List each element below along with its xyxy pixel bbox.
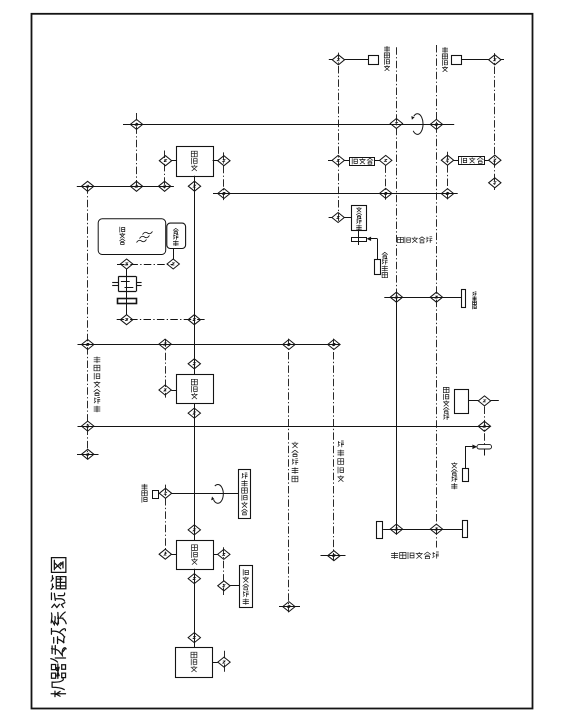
label adjust handle [472,292,476,309]
wire shaft V11 x396 lower solid [396,297,398,535]
gear z below box2 [188,408,200,418]
gearbox U1 box1 [177,147,214,177]
wire arrow feed vertical [377,239,379,260]
gear z y186 x136 [130,181,142,191]
gear z y607 x289 [283,602,295,612]
wire axis y320 [117,319,206,321]
coupling K1 (fluid coupling) [112,276,141,291]
output gear block 2 [452,56,462,65]
wire handle shaft y297 [384,297,461,299]
wire box3 right to d43 [213,554,218,556]
gear z y454 x88 [82,449,94,459]
pulley K2 under coupling [118,299,137,304]
wire switch link vertical [465,447,467,468]
wire shifter down [358,230,360,245]
wire axis y264 motor couple [117,264,173,266]
wire stub through d47 [279,606,300,608]
gear z below box3 [188,574,200,584]
label signal lamp [443,387,449,420]
label box1 text [191,151,198,171]
gear z y186 x88 [81,181,93,191]
gear z below valve2 [489,178,501,188]
gear z y193 x224 [218,189,230,199]
chuck bar left [377,522,383,539]
gear z box3 right [218,549,230,559]
gear z y186 x194 main shaft [188,181,200,191]
gear z box1-right [218,156,230,166]
wire stub right of output gear 2 [501,59,504,61]
wire stub right d34 [491,400,499,402]
gear z y297 x396 [390,292,402,302]
gear z shifter-left [332,213,344,223]
wire shaft line y493 [171,493,238,495]
wire d23 to adjust lever [443,297,461,299]
gearbox U3 box3 [177,541,214,570]
gear z above box2 [188,359,200,369]
wire box4 right to d49 [213,662,218,664]
wire box1 left link [172,160,176,162]
shifter rect [352,206,367,231]
wire square to output gear2 [462,59,489,61]
wire valve rect2 to d11 [485,160,489,162]
gear z y344 x165 [159,339,171,349]
wire chuck gear shaft y529 [383,529,463,531]
wire axis V14 x495 [494,53,496,190]
gear z output-2 diamond [489,55,501,65]
wire axis V7b x224 low [223,547,225,595]
wire stub below handle pill [484,449,486,455]
gear z reducer out [167,259,179,269]
label motor text [119,227,125,245]
wire lamp to d34 [469,400,479,402]
gear z y556 x334 [328,551,340,561]
arrow into fork bar [367,237,372,241]
wire main shaft box2-box3 [194,404,196,541]
valve label rect 2 [459,157,485,165]
valve label rect 1 [350,158,375,166]
gear z rope wheel [159,488,171,498]
wire reducer output stub x173 [173,249,175,260]
wire axis V9 x334 [333,339,335,562]
gear z y297 x436 [430,292,442,302]
wire axis V11 x396 upper [396,47,398,297]
clutch medium rod [375,260,381,275]
gearbox U2 box2 [177,375,214,404]
gear z above box3 [188,525,200,535]
wire axis V15 x484 [484,407,486,445]
rotation arrow R2 on shaft y493 [214,484,224,503]
wire shaft line y426 [78,426,491,428]
wire d46 to labelbox B [230,585,239,587]
output gear block 1 [369,56,379,65]
wire d32 to box2 [171,390,176,392]
gear z chuck left [390,524,402,534]
label output gear 1 [384,46,390,71]
labelbox A positioning pin [239,470,251,519]
gear z chuck right [430,524,442,534]
motor M1 wave symbol [137,232,153,243]
chuck bar right [463,521,468,538]
reducer box attached to motor [167,223,186,248]
gear z above box4 [188,633,200,643]
labelbox B rope insert [240,566,253,608]
wire arrow feed horizontal [371,238,378,240]
wire axis x386 valve1 down [385,165,387,200]
label clutch medium [382,252,388,277]
gearbox U4 box4 [176,648,213,678]
wire shaft line y186 [77,186,174,188]
switch medium rod [463,469,469,482]
label box4 text [191,652,198,672]
wire d20 to shifter rect [344,217,351,219]
gear z y426 x88 [82,421,94,431]
wire d42 to box3 left [172,554,177,556]
wire main shaft box1-box2 [194,176,196,375]
label axis x334 name [338,441,345,482]
label output gear 2 [442,47,448,72]
gear z box2 left [159,385,171,395]
label chuck driven gear [391,552,439,559]
gear z box4 right [218,657,230,667]
label feed change gear train [94,357,101,413]
motor M1 main motor body [98,219,166,255]
arrow into pill [472,445,477,450]
rope block square [153,491,159,499]
wire d08 to valve rect1 [344,160,349,162]
rotation arrow R1 on shaft y124 [413,114,423,135]
wire box1 right link [213,160,218,162]
wire stub through d44 [321,555,346,557]
gear z motor out left [120,259,132,269]
label reducer text [173,228,179,246]
adjust handle lever [462,290,466,308]
gear z box1-left [159,156,171,166]
wire rope square to d38 [158,493,159,495]
gear z at labelbox B [218,581,230,591]
wire axis V10 x338 [338,53,340,224]
gear z main shaft y320 [188,315,200,325]
wire main shaft box3-box4 [194,569,196,648]
wire axis V4c x165 low [165,485,167,555]
gear z y193 x386 [380,188,392,198]
wire axis V8 x289 [288,339,290,613]
label valve2 text [461,157,483,163]
label valve1 text [352,158,373,164]
gear z lamp right [478,396,490,406]
gear z y344 x289 [283,340,295,350]
label axis x289 name [292,442,299,482]
wire axis V13 x447 [447,152,449,200]
wire stub through d37 [77,454,99,456]
wire output gear1 to square [345,59,369,61]
wire shaft line y124 [123,124,454,126]
gear z output-1 diamond [332,55,344,65]
wire shaft line y344 [78,344,341,346]
gear z y344 x334 [328,340,340,350]
gear z y193 x447 [441,189,453,199]
wire axis V7c x224 gearstub [224,651,226,674]
shifter fork bar [352,238,367,242]
handle pill on axis x484 [477,445,492,449]
label positioning pin text [241,473,247,515]
wire motor output shaft x127 [126,269,128,315]
label labelbox B text [243,569,249,604]
wire stub left d20 [329,217,332,219]
wire valve rect1 to d09 [374,160,379,162]
wire stub left of output gear 1 [329,59,333,61]
title: machine transmission system diagram [51,558,66,697]
gear z on y124 at x136 [130,119,142,129]
gear z y186 x165 [158,181,170,191]
label box2 text [191,379,198,399]
wire axis V3 x136 [136,113,138,186]
gear z on y124 at x436 [430,119,442,129]
label wire rope [142,484,148,503]
wire d10 to valve rect2 [454,160,459,162]
wire axis V4b x165 mid [165,339,167,397]
wire axis V1 x88 [87,186,89,459]
gear z valve1-left [332,155,344,165]
gear z y344 x88 [82,340,94,350]
gear z valve2-left [441,155,453,165]
gear z valve1-right [380,155,392,165]
wire switch link horizontal [465,446,472,448]
label shifter text [356,207,362,230]
signal lamp rect [455,390,469,414]
gear z y426 x484 [478,421,490,431]
label box3 text [191,545,198,565]
label switch medium [451,462,457,489]
gear z box3 left [159,549,171,559]
gear z pulley bottom [120,315,132,325]
wire shaft line y193 [213,193,458,195]
gear z valve2-right [489,155,501,165]
label vertical axis name [398,237,433,243]
wire stub left d08 [328,160,332,162]
wire axis V12 x436 [436,45,438,548]
wire axis V4a x165 top [164,151,166,192]
gear z on y124 at x396 [390,119,402,129]
wire axis V7a x224 [223,152,225,200]
